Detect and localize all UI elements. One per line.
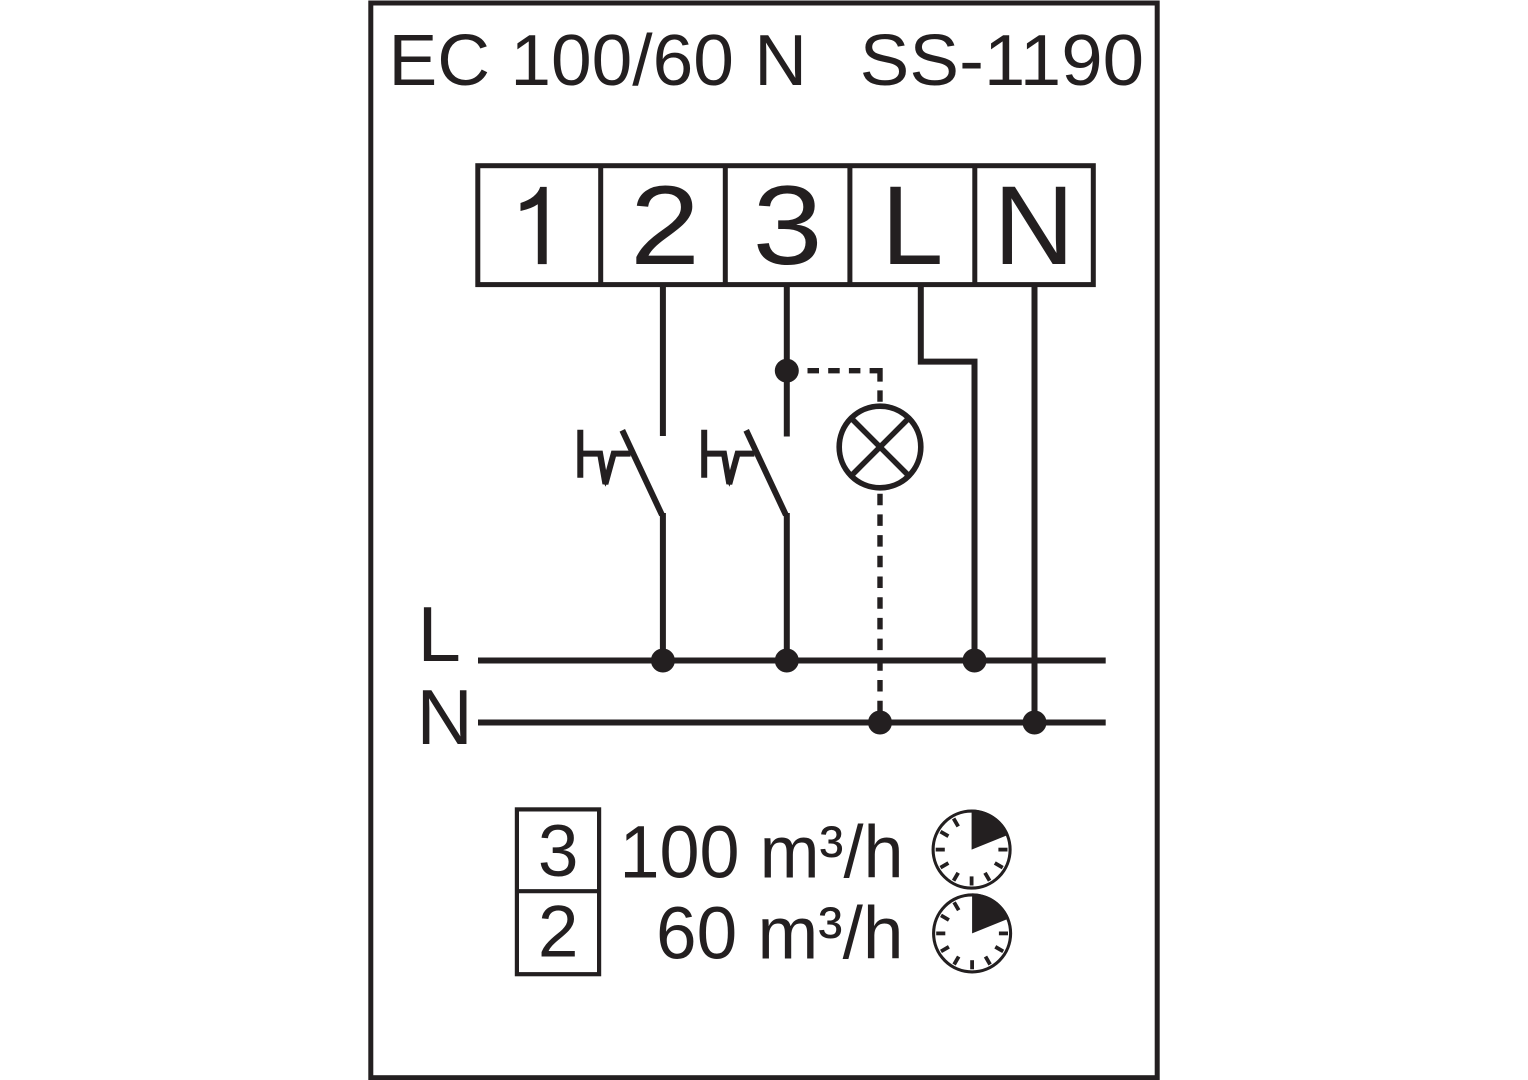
legend speed selector box [517, 809, 599, 974]
switch S1 actuator [580, 430, 630, 487]
switch S1 blade [622, 430, 662, 515]
wire from terminal L with jog [921, 284, 975, 661]
junction node on wire 3 [775, 359, 799, 383]
node N bus / lamp wire [868, 711, 892, 735]
wire switch S1 to L bus [660, 513, 666, 661]
svg-text:EC 100/60 N: EC 100/60 N [389, 20, 808, 101]
svg-text:100 m³/h: 100 m³/h [620, 810, 904, 893]
switch S2 blade [746, 430, 786, 515]
wire from terminal 3 [784, 284, 790, 437]
node L bus / switch S2 [775, 649, 799, 673]
svg-text:2: 2 [630, 163, 700, 288]
timer icon for speed 2 [934, 893, 1011, 972]
node N bus / terminal N wire [1023, 711, 1047, 735]
svg-text:N: N [417, 673, 473, 761]
wire from terminal 2 [660, 284, 666, 436]
dashed wire corner down to lamp top [877, 371, 880, 402]
svg-text:N: N [994, 163, 1075, 288]
wire switch S2 to L bus [784, 513, 790, 661]
terminal block [478, 166, 1094, 285]
L bus line [478, 658, 1106, 664]
N bus line [478, 720, 1106, 726]
node L bus / switch S1 [651, 649, 675, 673]
drawing frame [371, 3, 1157, 1078]
timer icon for speed 3 [933, 810, 1010, 889]
svg-text:3: 3 [753, 163, 823, 288]
svg-text:60 m³/h: 60 m³/h [656, 892, 904, 975]
svg-text:L: L [418, 590, 461, 678]
svg-text:SS-1190: SS-1190 [860, 20, 1144, 101]
node L bus / terminal L wire [963, 649, 987, 673]
switch S2 actuator [704, 430, 754, 487]
svg-text:2: 2 [538, 892, 579, 973]
terminal 1 label [521, 187, 547, 264]
lamp indicator [839, 406, 921, 488]
dashed wire lamp to N bus [877, 491, 882, 723]
svg-text:L: L [881, 163, 943, 288]
wire from terminal N [1032, 284, 1038, 723]
dashed wire junction dot to lamp [799, 368, 880, 373]
svg-text:3: 3 [538, 811, 579, 892]
